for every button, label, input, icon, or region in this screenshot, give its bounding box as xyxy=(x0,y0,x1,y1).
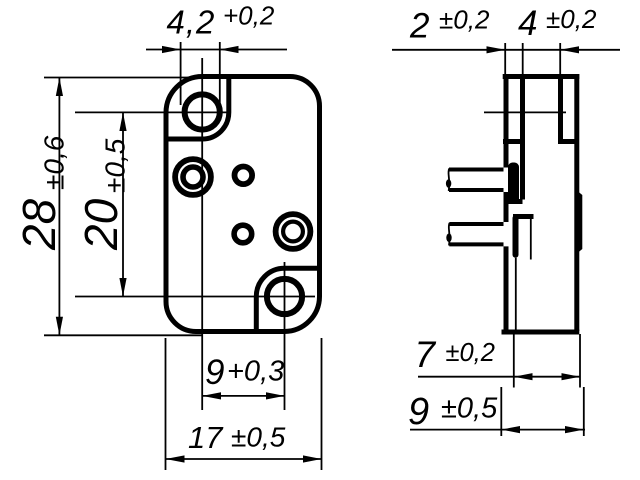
terminal blob 1 xyxy=(508,163,519,205)
svg-text:20: 20 xyxy=(75,198,127,251)
step under slot xyxy=(506,199,523,204)
dimension 9 extension lines xyxy=(500,387,502,436)
pin2 step xyxy=(513,214,534,219)
dimension 28 line xyxy=(58,78,60,336)
svg-text:±0,6: ±0,6 xyxy=(39,135,70,190)
svg-text:±0,2: ±0,2 xyxy=(439,5,490,35)
right wall xyxy=(574,74,579,331)
svg-text:+0,3: +0,3 xyxy=(227,356,284,388)
dimension 7 line xyxy=(418,376,581,378)
dimension 7 extension lines xyxy=(513,334,515,388)
dimension 9 line xyxy=(410,429,585,431)
right side bump xyxy=(575,189,582,255)
dimension 4.2 line xyxy=(146,49,287,51)
pin 2 xyxy=(449,222,503,226)
dimension 20 line xyxy=(122,112,124,296)
svg-text:±0,2: ±0,2 xyxy=(546,4,597,34)
right slot inner wall xyxy=(558,74,563,142)
top edge xyxy=(503,74,580,79)
terminal blob 2 xyxy=(513,215,519,258)
svg-text:+0,2: +0,2 xyxy=(223,1,275,31)
body outline xyxy=(166,77,320,332)
svg-text:4,2: 4,2 xyxy=(167,4,216,41)
centerline vertical hole2 xyxy=(284,262,286,410)
dimension 2/4 line xyxy=(392,49,620,51)
dimension 17 extension lines xyxy=(165,338,167,470)
projected centerline xyxy=(484,111,566,113)
centerline horizontal hole1 xyxy=(75,111,231,113)
dimension 2/4 extension lines xyxy=(504,43,506,75)
svg-text:17: 17 xyxy=(188,420,224,455)
svg-text:±0,2: ±0,2 xyxy=(446,339,495,367)
pin 1 xyxy=(449,168,504,172)
step contour bottom-right xyxy=(256,268,320,333)
svg-text:±0,5: ±0,5 xyxy=(100,138,131,193)
svg-text:2: 2 xyxy=(409,6,429,45)
left wall upper xyxy=(504,74,509,168)
svg-text:9: 9 xyxy=(205,353,224,392)
hole top-left xyxy=(185,94,220,129)
svg-text:7: 7 xyxy=(415,334,437,375)
left wall between pins xyxy=(504,192,509,222)
svg-text:4: 4 xyxy=(518,4,537,43)
centerline vertical hole1 xyxy=(201,58,203,410)
svg-text:±0,5: ±0,5 xyxy=(231,422,286,453)
left slot bottom xyxy=(503,139,523,144)
centerline horizontal hole2 xyxy=(75,296,315,298)
inner thin edge right of blob2 xyxy=(530,217,532,260)
inner thin edge lower-left wall xyxy=(515,258,517,330)
counterbored hole left xyxy=(175,159,211,195)
svg-text:±0,5: ±0,5 xyxy=(441,393,498,425)
small hole lower xyxy=(234,225,252,243)
dimension 28 extension lines xyxy=(44,77,203,79)
bottom edge xyxy=(502,330,580,335)
left slot inner wall xyxy=(520,74,525,200)
counterbored hole right xyxy=(276,214,311,249)
left wall lower xyxy=(504,246,509,332)
dimension 4.2 extension lines xyxy=(180,42,182,105)
dimension 9 line xyxy=(202,395,284,397)
svg-text:28: 28 xyxy=(13,198,65,251)
dimension 17 line xyxy=(166,458,322,460)
small hole upper xyxy=(235,167,253,185)
right slot bottom xyxy=(558,139,575,144)
step contour top-left xyxy=(165,75,229,139)
hole bottom-right xyxy=(267,279,302,314)
svg-text:9: 9 xyxy=(408,391,429,433)
